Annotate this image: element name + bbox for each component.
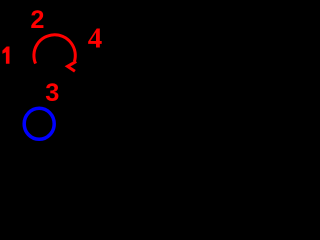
svg-text:4: 4 [88,23,103,55]
circle (blue) [24,108,54,139]
svg-text:3: 3 [45,79,59,107]
svg-text:2: 2 [30,6,44,34]
arrowhead (open V pointing down-left) [68,61,77,71]
label 1 (hand-drawn sans bold one) [2,47,9,64]
rotation arc (red, clockwise) [34,35,75,64]
